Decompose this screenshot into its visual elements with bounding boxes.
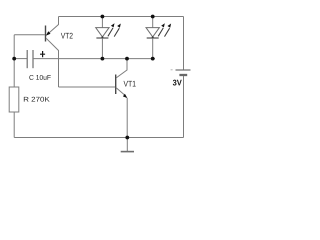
LED HL2 [146, 17, 171, 59]
node cap left junction [12, 57, 16, 61]
battery polarity tick [171, 69, 173, 71]
node LED2 anode [151, 15, 155, 19]
VT1 emitter arrow (NPN) [123, 94, 128, 98]
battery short plate [179, 74, 187, 76]
LED1 anode lead [101, 17, 103, 28]
LED1 light arrow 1 [108, 28, 113, 36]
wire left side upper (base of VT2 down to cap node) [13, 35, 15, 87]
VT1 base bar [115, 75, 117, 95]
wire right side (battery bottom lead) [183, 76, 185, 138]
VT1 emitter wire to ground node [126, 98, 128, 138]
node emitter-ground junction [125, 136, 129, 140]
LED1 triangle [96, 28, 109, 37]
VT2 emitter lead [49, 17, 58, 33]
LED2 cathode lead [152, 37, 154, 59]
node VT1 collector [125, 57, 129, 61]
label VT1 [124, 81, 136, 87]
battery GB 3V [171, 70, 191, 86]
wire VT2 base [14, 34, 45, 36]
VT2 base bar [45, 26, 47, 42]
label R 270K [24, 97, 50, 102]
VT2 collector lead [46, 38, 58, 87]
node LED1 cathode [101, 57, 105, 61]
capacitor plate left [26, 50, 28, 68]
LED2 light arrow 1 [158, 28, 163, 36]
wire bottom rail [14, 137, 183, 139]
wire top rail [59, 16, 184, 18]
LED1 cathode lead [101, 37, 103, 59]
wire left side lower (resistor to bottom rail) [13, 112, 15, 138]
ground stub [126, 138, 128, 152]
label 3V [173, 80, 182, 86]
ground bar [121, 151, 134, 153]
node LED1 anode [101, 15, 105, 19]
resistor body [9, 87, 19, 112]
capacitor left lead [14, 58, 27, 60]
wire right side (battery top lead) [183, 17, 185, 71]
VT2 emitter arrow (PNP) [46, 31, 51, 35]
resistor R 270K [9, 87, 49, 112]
node LED2 cathode [151, 57, 155, 61]
VT1 collector lead [116, 59, 127, 78]
LED1 light arrow 2 [114, 28, 119, 36]
label C 10uF [29, 75, 50, 80]
LED2 cathode bar [147, 37, 159, 39]
battery long plate [176, 69, 191, 71]
wire VT2 collector to VT1 base [59, 86, 116, 88]
ground [121, 138, 134, 152]
LED2 light arrow 2 [165, 28, 170, 36]
LED2 triangle [146, 28, 159, 37]
capacitor polarity + [40, 51, 45, 57]
LED HL1 [96, 17, 121, 59]
VT1 emitter lead [116, 88, 124, 95]
wire cap to LED cathodes / VT1 collector rail [33, 58, 155, 60]
transistor VT2 (PNP) [46, 17, 73, 88]
LED2 anode lead [152, 17, 154, 28]
label VT2 [61, 33, 73, 39]
capacitor plate right [32, 50, 34, 68]
transistor VT1 (NPN) [116, 59, 136, 138]
capacitor C 10uF [14, 50, 51, 80]
LED1 cathode bar [96, 37, 108, 39]
